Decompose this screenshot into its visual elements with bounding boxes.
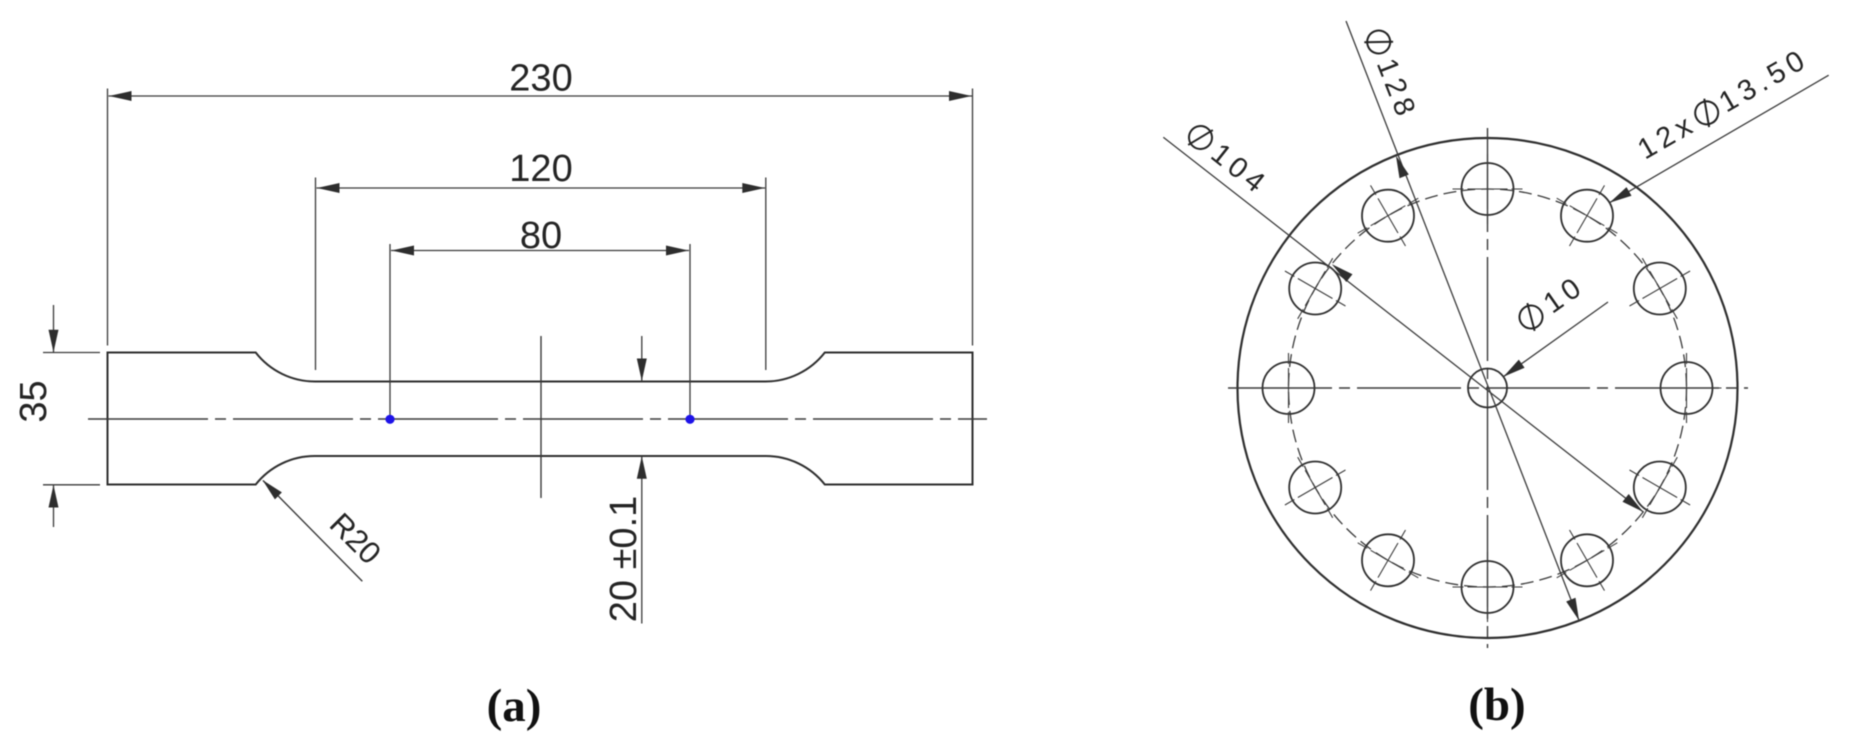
dimension 35: bottom extension line bbox=[43, 484, 100, 486]
R20 arrow bbox=[263, 480, 282, 499]
dimension 120: left arrow bbox=[317, 183, 340, 193]
svg-text:104: 104 bbox=[1205, 138, 1275, 203]
dimension 20 ±0.1: upper arrow (points down at top edge) bbox=[637, 359, 647, 382]
bolt hole 8 at 210 deg bbox=[1285, 457, 1346, 518]
dimension 20 ±0.1: lower arrow (points up at bottom edge) bbox=[637, 456, 647, 479]
Ø128 dimension line bbox=[1346, 21, 1579, 621]
blue datum point right bbox=[685, 415, 694, 424]
Ø128 text bbox=[1359, 26, 1423, 125]
blue datum point left bbox=[385, 415, 394, 424]
bolt hole 12 at 330 deg bbox=[1630, 457, 1691, 518]
vertical centerline mark at specimen middle bbox=[540, 336, 542, 498]
Ø128 upper arrow (tip on outer circle) bbox=[1396, 155, 1409, 178]
bolt hole 10 at 270 deg bbox=[1453, 552, 1523, 622]
Ø10 text bbox=[1513, 270, 1591, 338]
Ø104 upper arrow (tip on bolt circle) bbox=[1332, 264, 1353, 282]
dimension 35: lower arrow (points up) bbox=[49, 485, 59, 508]
dimension 120: dimension line bbox=[317, 187, 766, 189]
dimension 80: right arrow bbox=[666, 246, 689, 256]
bolt hole 3 at 60 deg bbox=[1557, 185, 1618, 246]
svg-text:R20: R20 bbox=[323, 506, 388, 571]
dimension 80: left arrow bbox=[392, 246, 415, 256]
bolt hole 6 at 150 deg bbox=[1285, 258, 1346, 319]
leader line for fillet radius R20 bbox=[263, 481, 362, 582]
svg-text:(b): (b) bbox=[1468, 679, 1525, 731]
specimen outline (dogbone tensile sample) bbox=[108, 353, 973, 485]
dimension 120: extension line right bbox=[765, 178, 767, 371]
Ø10 leader line bbox=[1503, 302, 1608, 377]
12x Ø13.50 leader line bbox=[1610, 75, 1829, 203]
flange horizontal centerline bbox=[1228, 387, 1748, 389]
dimension 120: extension line left bbox=[315, 178, 317, 371]
dimension 80: dimension line bbox=[391, 250, 689, 252]
dimension 35: upper arrow (points down) bbox=[49, 330, 59, 353]
bolt hole 1 at 0 deg bbox=[1652, 353, 1722, 423]
svg-text:128: 128 bbox=[1370, 54, 1423, 125]
svg-text:230: 230 bbox=[509, 58, 572, 100]
svg-text:35: 35 bbox=[13, 380, 55, 422]
flange vertical centerline bbox=[1487, 128, 1489, 648]
bolt hole 4 at 90 deg bbox=[1453, 154, 1523, 224]
bolt hole 9 at 240 deg bbox=[1358, 530, 1419, 591]
dimension 230: extension line right bbox=[972, 89, 974, 346]
dimension 35: upper dim line segment bbox=[53, 305, 55, 352]
Ø104 text bbox=[1181, 119, 1274, 202]
bolt hole 5 at 120 deg bbox=[1358, 185, 1419, 246]
flange outer circle bbox=[1238, 138, 1738, 638]
dimension 80: extension line left (down to datum dot) bbox=[389, 244, 391, 420]
svg-text:12x: 12x bbox=[1633, 107, 1702, 166]
Ø104 lower arrow (tip on bolt circle) bbox=[1623, 494, 1644, 512]
dimension 20 ±0.1: lower dim line segment bbox=[641, 456, 643, 623]
Ø10 arrow (tip at center hole edge) bbox=[1503, 360, 1524, 377]
Ø104 dimension line bbox=[1163, 137, 1643, 512]
dimension 80: extension line right (down to datum dot) bbox=[689, 244, 691, 420]
dimension 35: lower dim line segment bbox=[53, 485, 55, 527]
bolt hole 11 at 300 deg bbox=[1557, 530, 1618, 591]
svg-text:10: 10 bbox=[1538, 270, 1591, 320]
center hole bbox=[1468, 369, 1507, 408]
svg-text:(a): (a) bbox=[487, 680, 542, 732]
dimension 35: top extension line bbox=[43, 352, 100, 354]
svg-text:13.50: 13.50 bbox=[1714, 43, 1815, 120]
bolt circle (dashed) bbox=[1289, 189, 1687, 587]
dimension 230: extension line left bbox=[107, 89, 109, 346]
12x Ø13.50 arrow (tip at hole edge) bbox=[1610, 187, 1632, 203]
dimension 230: dimension line bbox=[109, 95, 973, 97]
bolt hole 2 at 30 deg bbox=[1630, 258, 1691, 319]
horizontal centerline of specimen bbox=[88, 418, 987, 420]
dimension 230: left arrow bbox=[109, 91, 132, 101]
dimension 230: right arrow bbox=[949, 91, 972, 101]
Ø128 lower arrow (tip on outer circle) bbox=[1566, 598, 1579, 621]
svg-text:120: 120 bbox=[509, 148, 572, 190]
dimension 20 ±0.1: upper dim line segment bbox=[641, 336, 643, 381]
dimension 120: right arrow bbox=[742, 183, 765, 193]
svg-text:80: 80 bbox=[520, 215, 562, 257]
svg-text:20 ±0.1: 20 ±0.1 bbox=[603, 496, 645, 623]
12x Ø13.50 text bbox=[1633, 43, 1815, 167]
bolt hole 7 at 180 deg bbox=[1254, 353, 1324, 423]
